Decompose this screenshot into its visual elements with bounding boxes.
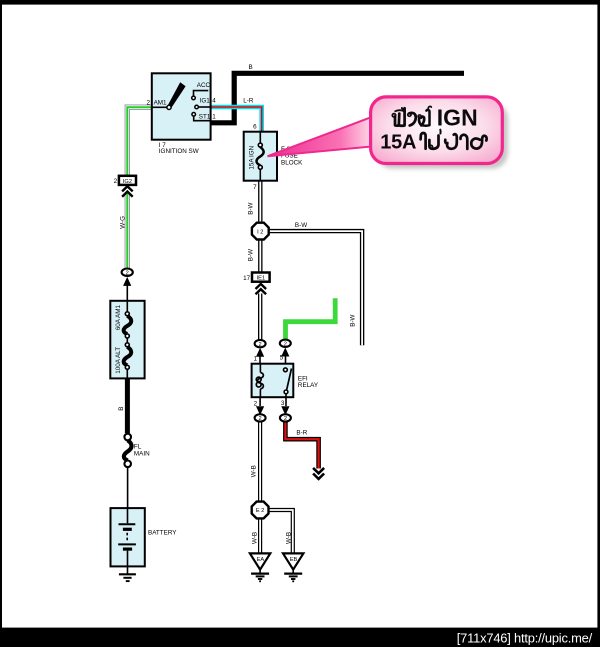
chevron arrow below IE1 [256,284,267,294]
svg-text:E 2: E 2 [256,508,265,514]
svg-text:BATTERY: BATTERY [148,530,177,537]
svg-text:B-R: B-R [296,430,307,437]
svg-text:IG2: IG2 [123,179,132,185]
callout bubble shadow [377,103,509,169]
contact ACC [192,96,196,100]
ground EA [250,553,270,569]
wire W-B: relay pin2 connector down to node E2 [258,422,262,502]
svg-text:B-W: B-W [295,222,307,229]
svg-text:60A AM1: 60A AM1 [115,304,122,330]
svg-text:EA: EA [257,557,265,563]
fusible link FL MAIN [124,434,131,441]
connector IG2 [119,176,136,185]
battery body [111,508,145,566]
wire W-B branch: node E2 right to ground EB [269,510,293,553]
svg-text:MAIN: MAIN [134,450,150,457]
svg-text:6: 6 [253,124,257,131]
callout text line1 Thai: fiws (fuse) [392,106,431,125]
wire W-G: AM1 pin2 down to connector IG2 [127,107,152,176]
arrow into oval connector (left column) [123,277,131,286]
svg-text:B-W: B-W [248,249,255,261]
wire L-R: IG1 pin4 to fuse block pin6 [211,107,262,133]
wire B-W: fuse block pin7 to node I2 [258,181,262,224]
relay bottom-left oval connector 2 [255,414,266,421]
svg-text:100A ALT: 100A ALT [115,347,122,374]
wire W-B: node E2 down to ground EA [258,518,262,553]
relay bottom-right oval connector 2 [280,414,291,421]
ground below battery [127,566,129,573]
contact IG1 / pin 4 [195,105,199,109]
ground EB [283,553,303,569]
svg-text:17: 17 [243,275,251,282]
svg-text:2: 2 [114,178,118,185]
relay top-left oval connector 2 [258,339,262,342]
fuse block F8 body [244,132,277,181]
chevron arrow end of B-R wire [313,468,324,479]
svg-text:2: 2 [259,416,262,422]
svg-text:3: 3 [281,400,285,407]
svg-text:5: 5 [280,355,284,362]
wire B-W branch: node I2 right and down [269,231,362,345]
svg-text:7: 7 [253,184,257,191]
wire B-W: IE1 to relay top-left connector [258,294,262,340]
relay coil [259,364,261,373]
fuse 15A IGN [259,132,261,144]
wire B thick: ST1 pin1 to top right (battery feed) [211,73,464,123]
svg-text:2: 2 [146,99,150,106]
svg-text:4: 4 [212,97,216,104]
svg-text:EB: EB [290,557,298,563]
svg-text:ST1: ST1 [199,114,211,121]
relay switch [284,368,288,372]
svg-text:IGN: IGN [437,105,478,131]
svg-text:W-B: W-B [252,532,259,544]
svg-text:2: 2 [126,271,129,277]
wire FL MAIN to battery [127,467,129,509]
svg-text:[711x746] http://upic.me/: [711x746] http://upic.me/ [457,631,593,646]
pin 3 relay [285,394,287,406]
fusible link block body [110,301,144,379]
arrow into bottom-left oval [256,406,264,415]
fusible link 60A AM1 [126,301,128,312]
svg-text:IGNITION SW: IGNITION SW [159,148,199,155]
ignition switch movable arm (AM1) [168,82,186,109]
battery plates [127,508,129,523]
svg-text:W-B: W-B [250,465,257,477]
svg-text:15A: 15A [380,132,416,154]
pin 2 relay [259,397,261,406]
svg-text:IE1: IE1 [257,276,266,282]
contact ST1 / pin 1 [192,113,196,117]
svg-text:15A IGN: 15A IGN [248,145,255,169]
arrow into bottom-right oval [281,406,289,415]
wire green highlight (IGF test lead) [286,298,336,339]
arrow below top-right oval [281,348,289,357]
svg-text:BLOCK: BLOCK [281,159,303,166]
relay top-right oval connector 2 [283,339,287,342]
ignition switch I7 body [152,73,211,139]
node I2 octagon [252,223,269,240]
callout bubble body [371,97,503,164]
svg-text:2: 2 [259,342,262,348]
wire B-W: node I2 down to connector IE1 [258,240,262,273]
svg-text:B: B [249,64,253,71]
svg-text:IG1: IG1 [200,97,211,104]
wire W-G: IG2 to oval connector [125,193,130,269]
svg-text:W-B: W-B [285,532,292,544]
EFI relay body [252,364,294,398]
arrow below top-left oval [256,348,264,357]
svg-text:B-W: B-W [248,203,255,215]
svg-text:L-R: L-R [243,97,254,104]
fusible link 100A ALT [126,338,128,343]
svg-text:1: 1 [212,114,216,121]
svg-text:2: 2 [284,416,287,422]
svg-text:W-G: W-G [119,216,126,229]
svg-text:B-W: B-W [350,315,357,327]
wire from oval connector into fusible link box [126,281,128,313]
svg-text:ACC: ACC [197,82,211,89]
svg-text:RELAY: RELAY [298,382,319,389]
node E2 octagon [252,502,269,519]
svg-text:AM1: AM1 [154,99,167,106]
connector IE1 [252,273,270,282]
oval connector 2 (left column) [125,268,129,271]
svg-text:B: B [118,407,125,411]
svg-text:I 2: I 2 [257,229,263,235]
callout pointer (to fuse 15A IGN) [268,117,372,156]
wire B thick: fusible link box to FL MAIN [125,378,130,433]
chevron arrow below IG2 [122,186,133,196]
callout text line2 Thai: mai khat (not blown) [421,130,487,149]
svg-text:2: 2 [284,342,287,348]
svg-text:1: 1 [253,355,257,362]
wire B-R: relay pin3 connector to harness end [285,422,318,469]
